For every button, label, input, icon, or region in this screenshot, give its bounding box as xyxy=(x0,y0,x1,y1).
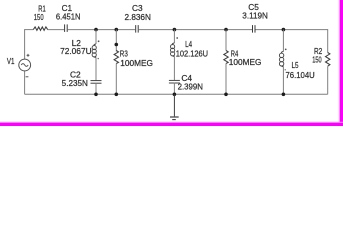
svg-text:C3: C3 xyxy=(132,4,143,13)
resistor R1 xyxy=(33,27,47,31)
node bottom of L4 branch xyxy=(173,93,177,97)
V1 minus mark xyxy=(26,76,29,78)
ground xyxy=(170,94,179,119)
wire C2 to bottom rail xyxy=(95,83,97,94)
wire L4 branch middle xyxy=(173,57,175,81)
svg-text:3.119N: 3.119N xyxy=(242,12,268,21)
capacitor C4 xyxy=(169,80,180,83)
capacitor C1 xyxy=(65,24,68,32)
wire top rail left segment xyxy=(25,29,34,31)
svg-text:2.836N: 2.836N xyxy=(125,13,152,22)
voltage source V1 xyxy=(19,59,31,71)
capacitor C2 xyxy=(91,81,102,84)
wire L2 branch upper xyxy=(95,30,97,44)
node top of R4 branch xyxy=(224,28,228,32)
svg-text:2.399N: 2.399N xyxy=(178,83,204,92)
wire V1 bottom vertical xyxy=(24,71,26,94)
node bottom of R4 branch xyxy=(224,93,228,97)
node top of R3 branch xyxy=(115,28,119,32)
resistor R3 xyxy=(114,51,118,64)
node top of L4 branch xyxy=(173,28,177,32)
wire L4 branch upper xyxy=(173,30,175,43)
wire R3 branch lower xyxy=(115,64,117,95)
svg-text:100MEG: 100MEG xyxy=(229,58,262,67)
L4 polarity dot xyxy=(176,37,178,39)
wire R4 branch upper xyxy=(225,30,227,51)
node top of L5 branch xyxy=(282,28,286,32)
node top of L2 branch xyxy=(94,28,98,32)
magenta right border xyxy=(339,0,340,126)
wire R2 branch upper xyxy=(327,29,329,52)
L5 bottom pin tick xyxy=(285,69,286,70)
svg-text:R3: R3 xyxy=(120,50,128,59)
svg-text:L4: L4 xyxy=(185,40,192,49)
wire V1 top vertical xyxy=(24,29,26,59)
node bottom of R3 branch xyxy=(115,93,119,97)
wire L5 branch lower xyxy=(282,67,284,95)
wire R4 branch lower xyxy=(225,64,227,95)
wire bottom rail xyxy=(25,93,328,95)
svg-text:R1: R1 xyxy=(38,4,46,13)
wire top rail between C5 and R2 corner xyxy=(256,29,328,31)
svg-text:150: 150 xyxy=(34,13,44,22)
node bottom of L2 branch xyxy=(94,93,98,97)
wire top rail between C3 and C5 xyxy=(139,29,252,31)
svg-text:100MEG: 100MEG xyxy=(120,59,153,68)
svg-text:150: 150 xyxy=(312,56,322,65)
inductor L2 xyxy=(92,44,96,57)
svg-text:6.451N: 6.451N xyxy=(56,13,81,22)
V1 plus mark xyxy=(27,54,30,57)
capacitor C5 xyxy=(253,25,256,32)
magenta bottom border xyxy=(0,122,343,123)
svg-text:5.235N: 5.235N xyxy=(62,79,88,88)
wire top rail between R1 and C1 xyxy=(48,29,64,31)
wire L2 branch middle xyxy=(95,58,97,81)
svg-text:L5: L5 xyxy=(292,61,299,70)
wire R3 branch upper xyxy=(115,30,117,52)
capacitor C3 xyxy=(136,25,139,32)
L5 polarity dot xyxy=(285,49,287,51)
resistor R4 xyxy=(224,51,228,64)
svg-text:102.126U: 102.126U xyxy=(176,50,209,59)
node R3 pin junction xyxy=(115,43,119,47)
inductor L5 xyxy=(279,52,283,67)
resistor R2 xyxy=(326,53,330,67)
svg-text:76.104U: 76.104U xyxy=(286,71,315,80)
inductor L4 xyxy=(171,43,175,56)
L2 polarity dot xyxy=(98,40,100,42)
node bottom of L5 branch xyxy=(282,93,286,97)
wire top rail between C1 and C3 xyxy=(68,29,135,31)
L2 bottom pin tick xyxy=(98,58,99,59)
wire R2 branch lower xyxy=(327,66,329,94)
wire L5 branch upper xyxy=(282,30,284,52)
wire C4 to bottom rail xyxy=(173,83,175,95)
svg-text:72.067U: 72.067U xyxy=(60,47,92,56)
svg-text:V1: V1 xyxy=(7,57,15,66)
